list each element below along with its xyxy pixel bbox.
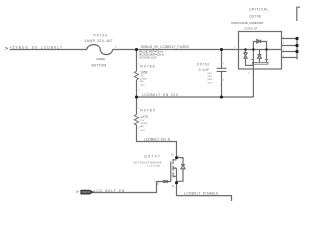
body diode branch <box>177 158 184 182</box>
svg-text:2: 2 <box>248 73 250 75</box>
inner middle diode branch <box>259 50 261 55</box>
svg-text:MIN_NECK_WIDTH=0.25 mm: MIN_NECK_WIDTH=0.25 mm <box>139 54 164 56</box>
svg-text:Q9707: Q9707 <box>144 155 160 159</box>
transistor Q9707 drain lead <box>173 159 176 161</box>
svg-text:1/16W: 1/16W <box>140 78 147 80</box>
inner diode D1 <box>257 40 261 43</box>
inner FET leg left <box>252 50 254 70</box>
svg-text:LCDBKLT_DISABLE: LCDBKLT_DISABLE <box>184 191 219 195</box>
svg-text:402: 402 <box>140 85 145 87</box>
svg-text:2: 2 <box>223 79 225 81</box>
svg-text:X5R: X5R <box>207 79 212 81</box>
wire input rail left <box>10 49 88 51</box>
gate bead symbol <box>163 180 165 182</box>
svg-text:MIN_LINE_WIDTH=0.5 mm: MIN_LINE_WIDTH=0.5 mm <box>139 51 163 53</box>
svg-text:1%: 1% <box>140 76 143 78</box>
svg-text:402: 402 <box>140 130 145 132</box>
inner TVS branch <box>245 50 247 53</box>
svg-text:2: 2 <box>138 90 140 92</box>
svg-text:2N7002/FDMA68: 2N7002/FDMA68 <box>133 160 161 164</box>
svg-text:OLB-DNL: OLB-DNL <box>96 58 106 61</box>
pin 2 line <box>282 45 298 47</box>
svg-text:P9700: P9700 <box>94 33 108 37</box>
svg-text:402: 402 <box>207 82 212 84</box>
svg-text:165K: 165K <box>140 70 148 74</box>
pin 4 line <box>282 57 298 59</box>
inner middle diode <box>258 55 262 59</box>
capacitor C9702 lead bottom <box>221 72 223 97</box>
capacitor C9702 plates <box>217 68 227 71</box>
svg-text:R9788: R9788 <box>140 65 154 69</box>
body diode zener <box>181 165 185 169</box>
inner FET leg right <box>266 50 268 63</box>
svg-text:1/16W: 1/16W <box>140 123 147 125</box>
wire EN_DIV up to Q9706 box <box>252 69 254 97</box>
inner TVS zener <box>244 53 248 59</box>
svg-text:MF: MF <box>140 81 144 83</box>
svg-text:VOLTAGE=12.6V: VOLTAGE=12.6V <box>139 56 157 59</box>
svg-text:BOTTOM: BOTTOM <box>92 63 107 67</box>
transistor Q9707 source lead <box>173 168 176 183</box>
wire divider branch vertical top <box>136 50 138 72</box>
svg-text:10%: 10% <box>207 76 212 78</box>
Q9706 composite box <box>239 32 282 70</box>
svg-text:1AMP-32V-467: 1AMP-32V-467 <box>84 39 112 43</box>
svg-text:MF: MF <box>140 126 144 128</box>
resistor R9788 <box>134 71 138 80</box>
svg-text:PHOTOGATE_COMPOSIT: PHOTOGATE_COMPOSIT <box>231 21 263 25</box>
svg-text:1: 1 <box>223 63 225 65</box>
svg-text:1%: 1% <box>140 120 143 122</box>
pin 3 line <box>282 51 298 53</box>
wire rail fuse to box <box>112 49 281 51</box>
inner foot ticks <box>251 58 268 60</box>
wire LCDBKLT_EN_R to drain <box>137 125 177 158</box>
inner top diode loop <box>253 42 266 50</box>
corner bracket top right <box>297 7 300 21</box>
transistor Q9707 channel dashes <box>172 159 174 177</box>
svg-text:5VBUS_S0_LCDBKLT_FUSED: 5VBUS_S0_LCDBKLT_FUSED <box>141 45 190 49</box>
right bus <box>296 39 298 60</box>
pin 1 line <box>282 38 298 40</box>
svg-text:R9789: R9789 <box>140 109 154 113</box>
svg-text:1: 1 <box>179 186 181 188</box>
wire LCDBKLT_EN_DIV horizontal <box>137 96 254 98</box>
svg-text:G: G <box>157 182 160 186</box>
svg-text:4xFDMA: 4xFDMA <box>147 165 160 168</box>
svg-text:S: S <box>172 184 174 188</box>
svg-text:147K: 147K <box>140 115 148 119</box>
wire R9789 top lead <box>136 97 138 115</box>
svg-text:CRITICAL: CRITICAL <box>249 8 268 12</box>
svg-text:LCDBKLT_EN_DIV: LCDBKLT_EN_DIV <box>142 93 179 97</box>
svg-text:16V: 16V <box>207 73 212 75</box>
capacitor C9702 lead top <box>221 50 223 69</box>
wire R9788 to EN_DIV node <box>136 80 138 97</box>
svg-text:GATED-NF: GATED-NF <box>244 27 258 30</box>
svg-text:C9702: C9702 <box>197 63 210 67</box>
svg-text:LCD_BKLT_EN: LCD_BKLT_EN <box>94 189 125 193</box>
transistor Q9707 gate bar <box>170 162 172 182</box>
svg-text:LCDBKLT_EN_R: LCDBKLT_EN_R <box>144 137 171 141</box>
svg-text:0.1UF: 0.1UF <box>199 68 209 72</box>
resistor R9789 <box>134 115 138 125</box>
inner bottom gate bar <box>253 62 269 64</box>
transistor Q9707 gate feed wire <box>93 182 171 193</box>
transistor Q9707 body arrow lead <box>173 167 176 169</box>
svg-text:D: D <box>171 153 174 157</box>
arrowhead <box>173 167 175 169</box>
svg-text:Q9706: Q9706 <box>249 15 261 19</box>
inner TVS lower lead <box>246 58 254 65</box>
svg-text:+5VBUS_S0_LCDBKLT: +5VBUS_S0_LCDBKLT <box>10 46 63 50</box>
node +5VBUS_S0_LCDBKLT input arrow <box>5 47 7 49</box>
fuse P9700 <box>87 45 113 55</box>
wire source down and out <box>177 183 232 201</box>
net connector LCD_BKLT_EN pentagon <box>81 190 93 193</box>
svg-text:2: 2 <box>154 180 156 182</box>
